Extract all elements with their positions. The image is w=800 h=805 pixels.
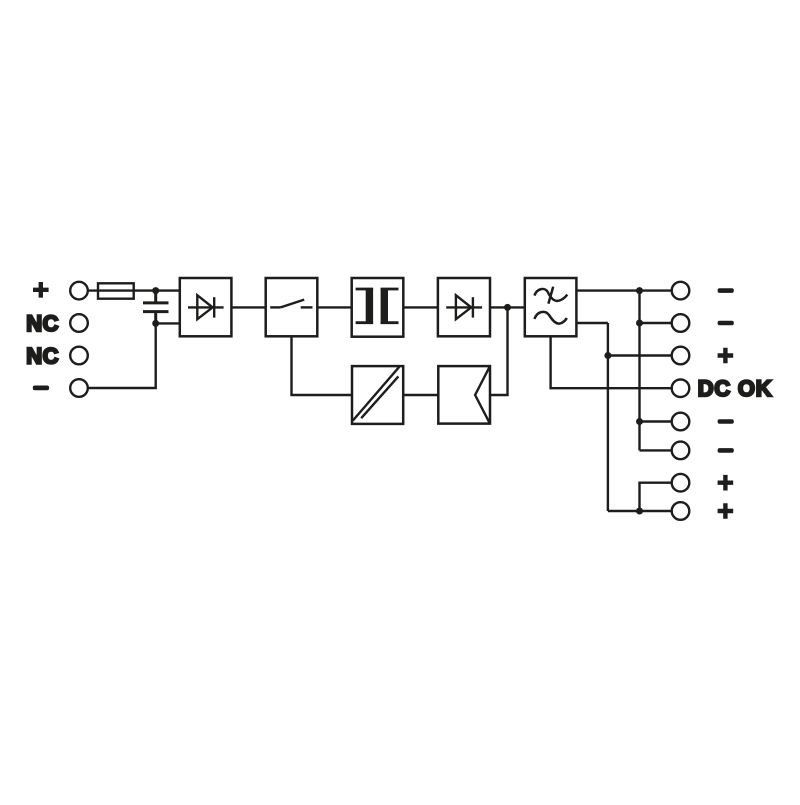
terminal out 1 - [672, 282, 690, 300]
terminal out 8 + [672, 502, 690, 520]
node J8 (row8 junction) [636, 508, 643, 515]
block U1 (input rectifier/protection diode) [180, 278, 232, 336]
wire J2 to block U1 lower input [156, 322, 180, 324]
wire T1 to D2 [403, 306, 438, 308]
label - (out1) [718, 288, 734, 293]
wire plus bus bottom to terminal row 8 [608, 510, 672, 512]
terminal out 7 + [672, 474, 690, 492]
diode D1 symbol [188, 295, 224, 319]
terminal NC 1 [70, 314, 88, 332]
wire U2 to T1 [317, 306, 351, 308]
label - (out5) [718, 419, 734, 424]
plus bus vertical [607, 323, 609, 511]
terminal out 3 + [672, 347, 690, 365]
label + (out8) [718, 503, 734, 519]
switch S1 symbol [270, 300, 312, 308]
wire plus bus to terminal row 3 [608, 354, 672, 356]
terminal X1 + (input) [70, 282, 88, 300]
block U3 (output rectifier) [438, 278, 490, 336]
block U2 (switching stage) [266, 278, 318, 336]
wire DC OK from filter bottom to terminal row 4 [551, 336, 672, 388]
wire U3 to U5 with node J3 [490, 306, 525, 308]
svg-text:NC: NC [26, 311, 59, 336]
wire U1 to U2 [231, 306, 265, 308]
node J2 (capacitor bottom) [152, 320, 159, 327]
wire from + terminal through fuse to block U1 [88, 289, 180, 291]
wire filter top output to terminal row 1 [576, 289, 671, 291]
minus bus vertical [638, 291, 640, 451]
terminal X1 - (input minus) [70, 379, 88, 397]
node J4 (bus top) [636, 287, 643, 294]
feedback chevron symbol [475, 367, 490, 423]
terminal out 2 - [672, 314, 690, 332]
transformer T1 windings symbol [356, 288, 399, 324]
capacitor C1 [143, 291, 169, 324]
wire bus to terminal row 5 [640, 420, 672, 422]
node J6 (row3 tap) [604, 352, 611, 359]
block U6 (feedback isolator) [438, 366, 490, 424]
terminal out 6 - [672, 442, 690, 460]
wire bus corner to terminal row 6 [640, 449, 672, 451]
svg-text:DC OK: DC OK [698, 376, 773, 401]
diode D2 symbol [446, 295, 482, 319]
node J5 (row2 tap) [636, 320, 643, 327]
svg-text:NC: NC [26, 344, 59, 369]
wire terminal row 7 drop [640, 483, 672, 511]
wire filter lower output [576, 322, 608, 324]
label + (out7) [718, 475, 734, 491]
terminal out 4 DC OK [672, 379, 690, 397]
terminal out 5 - [672, 413, 690, 431]
label - (input minus) [33, 386, 49, 391]
label + (out3) [718, 348, 734, 364]
wire U2 bottom to U4 (control path) [292, 336, 353, 395]
filter symbol: crossed sine over sine [534, 287, 567, 324]
node J7 (row5 tap) [636, 418, 643, 425]
node J3 (feedback tap) [504, 304, 511, 311]
node J1 (after fuse) [152, 287, 159, 294]
label - (out6) [718, 448, 734, 453]
regulator diagonal symbol [353, 367, 400, 421]
terminal NC 2 [70, 347, 88, 365]
wire U6 to node J3 [490, 307, 508, 395]
label - (out2) [718, 321, 734, 326]
label + (input plus) [33, 282, 49, 298]
fuse F1 [98, 283, 134, 298]
wire U4 to U6 [403, 394, 438, 396]
block U5 (output filter) [525, 278, 577, 336]
wire - terminal to J2 [88, 323, 156, 388]
block U4 (regulator / PWM control) [352, 366, 403, 424]
block T1 (transformer) [352, 278, 404, 337]
wire bus to terminal row 2 [640, 322, 672, 324]
